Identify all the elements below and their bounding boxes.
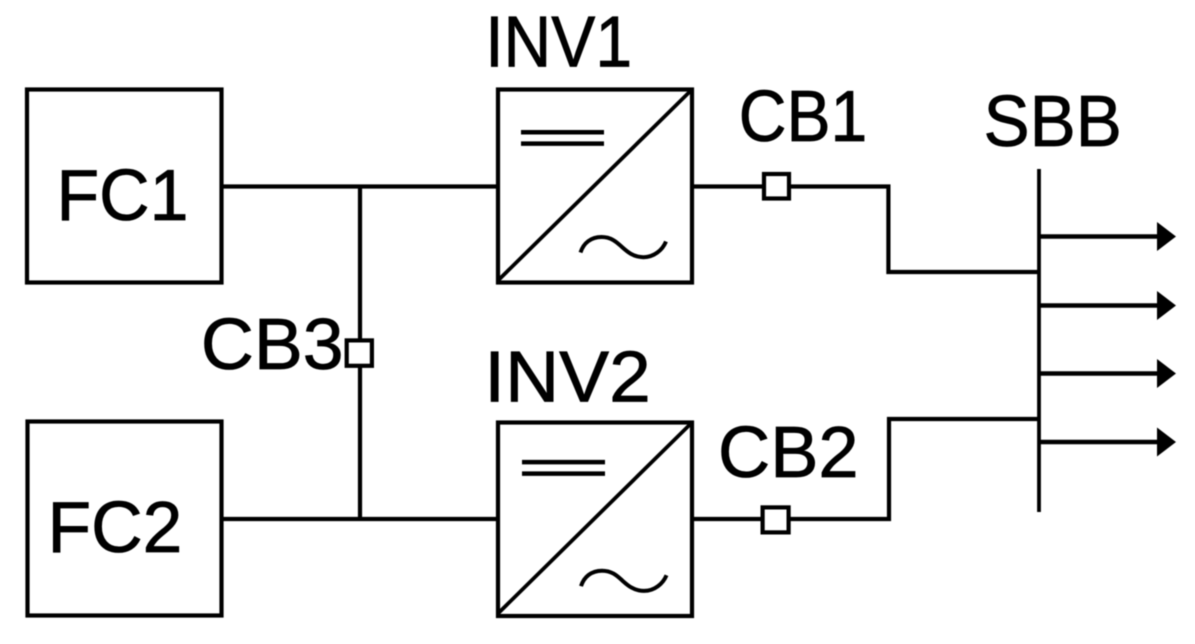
- svg-text:FC1: FC1: [57, 156, 189, 236]
- load feeder arrow 1: [1039, 222, 1176, 251]
- inverter INV2 box: [498, 423, 692, 617]
- inverter INV1 AC sine: [581, 237, 667, 257]
- inverter INV2 diagonal: [498, 423, 692, 614]
- load feeder arrow 3: [1039, 359, 1176, 388]
- wire FC1 to INV1: [221, 184, 498, 188]
- circuit breaker CB1 square: [764, 174, 789, 199]
- svg-text:INV2: INV2: [484, 337, 651, 417]
- circuit breaker CB3 square: [347, 340, 372, 365]
- circuit breaker CB2 square: [763, 507, 789, 532]
- wire INV2 to CB2 to SBB: [692, 419, 1039, 519]
- fuel cell FC1 box: [27, 90, 222, 283]
- svg-text:INV1: INV1: [485, 2, 632, 82]
- inverter INV2 AC sine: [581, 571, 667, 591]
- busbar SBB: [1037, 169, 1041, 512]
- wire INV1 to CB1 to SBB: [692, 187, 1039, 273]
- wire FC2 to INV2: [221, 517, 498, 521]
- load feeder arrow 2: [1039, 291, 1176, 320]
- load feeder arrow 4: [1039, 428, 1176, 457]
- svg-text:CB3: CB3: [201, 305, 344, 385]
- inverter INV1 box: [498, 90, 692, 283]
- inverter INV1 diagonal: [498, 90, 692, 281]
- svg-text:CB1: CB1: [739, 77, 868, 157]
- svg-text:CB2: CB2: [718, 413, 859, 493]
- wire vertical tie through CB3: [358, 187, 362, 520]
- svg-text:FC2: FC2: [48, 488, 183, 568]
- fuel cell FC2 box: [28, 422, 222, 616]
- inverter INV1 DC symbol: [521, 130, 604, 135]
- inverter INV2 DC symbol: [522, 460, 605, 465]
- svg-text:SBB: SBB: [984, 82, 1122, 162]
